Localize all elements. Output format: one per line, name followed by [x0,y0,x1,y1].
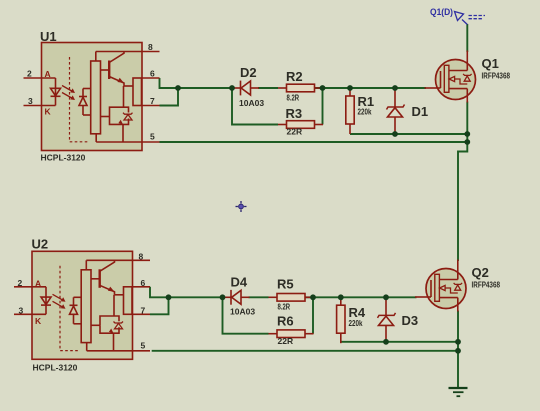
svg-text:IRFP4368: IRFP4368 [482,71,511,81]
opto U1 [24,43,160,151]
svg-text:3: 3 [28,96,33,106]
ground symbol [449,388,468,396]
mosfet Q1 [425,51,476,103]
svg-text:5: 5 [141,341,146,351]
node Y2 junction [310,294,316,300]
resistor R1 [346,88,354,134]
svg-text:A: A [45,69,51,79]
node Q2 source rail2 junction [455,348,461,354]
resistor R2 [278,84,323,92]
node Q1 source rail1 junction [464,131,470,137]
svg-text:5: 5 [150,132,155,142]
svg-text:7: 7 [150,96,155,106]
svg-text:6: 6 [141,278,146,288]
voltage probe Q1(D) [455,12,486,25]
svg-text:R3: R3 [286,106,303,121]
svg-text:2: 2 [27,69,32,79]
svg-text:22R: 22R [287,127,303,137]
resistor R6 [269,330,314,338]
wire node Y to Q1 gate [314,87,426,89]
svg-text:HCPL-3120: HCPL-3120 [33,363,78,373]
wire Q1 source to Q2 drain [458,102,467,262]
svg-text:Q1: Q1 [482,56,499,71]
node U1 out junction [175,85,181,91]
node R4 top junction [338,294,344,300]
zener D1 [387,89,405,134]
svg-text:Q1(D): Q1(D) [430,7,453,17]
wire U1 pin5 rail y142 [160,141,468,143]
resistor R3 [278,121,323,129]
node X junction [229,85,235,91]
svg-text:3: 3 [19,306,24,316]
svg-text:8: 8 [148,42,153,52]
diode D4 [223,290,250,305]
svg-text:7: 7 [141,306,146,316]
node D3 top junction [383,294,389,300]
node U2 out junction [166,294,172,300]
diode D2 [232,81,259,96]
svg-text:R2: R2 [286,69,303,84]
svg-text:HCPL-3120: HCPL-3120 [41,153,86,163]
node R1 top junction [347,85,353,91]
wire U1 pin7 up to gate node [160,89,179,106]
svg-text:D4: D4 [231,275,248,290]
origin marker [236,201,247,212]
wire rail R1/D1 bottom y134 [350,133,467,135]
zener D3 [378,297,396,342]
svg-text:U2: U2 [32,237,49,252]
svg-text:R5: R5 [277,277,294,292]
node Y junction [320,85,326,91]
svg-text:8.2R: 8.2R [278,302,291,312]
svg-text:D1: D1 [412,104,429,119]
wire U2 pin6 to gate node 2 [150,287,223,298]
svg-text:10A03: 10A03 [230,307,255,317]
wire U2 pin7 up to gate node 2 [150,298,169,314]
wire Q2 source to ground [457,311,459,389]
svg-text:K: K [45,107,52,117]
node X2 junction [220,294,226,300]
svg-text:K: K [35,316,42,326]
svg-text:R6: R6 [277,314,294,329]
svg-text:6: 6 [150,69,155,79]
svg-text:8: 8 [139,252,144,262]
node Q2 source rail1 junction [455,339,461,345]
svg-text:220k: 220k [358,107,372,117]
svg-text:U1: U1 [40,29,57,44]
svg-text:220k: 220k [349,318,363,328]
resistor R5 [269,294,314,302]
opto U2 [14,251,150,359]
node D3 bottom junction [383,339,389,345]
wire rail R4/D3 bottom y340.7 [341,341,458,343]
svg-text:D2: D2 [240,65,257,80]
wire U2 pin5 rail y350.7 [152,350,458,352]
svg-text:10A03: 10A03 [239,98,264,108]
svg-text:IRFP4368: IRFP4368 [472,280,501,290]
wire R6 right up to node Y2 [312,297,314,333]
wire D4 anode to R5 [249,296,269,298]
mosfet Q2 [415,260,466,312]
svg-text:2: 2 [18,278,23,288]
wire node X down to R3 [232,88,278,125]
svg-text:D3: D3 [402,313,419,328]
wire U1 pin6 to gate node [160,78,233,88]
node D1 bottom junction [392,131,398,137]
wire probe to Q1 drain [466,24,468,52]
wire node Y2 to Q2 gate [305,296,417,298]
node D1 top junction [392,85,398,91]
resistor R4 [337,297,345,343]
wire R3 right up to node Y [322,88,324,125]
svg-text:22R: 22R [278,336,294,346]
svg-text:Q2: Q2 [472,265,489,280]
wire D2 anode to R2 [258,87,278,89]
node Q1 source rail2 junction [464,139,470,145]
wire node X2 down to R6 [223,297,269,333]
svg-text:A: A [35,279,41,289]
svg-text:8.2R: 8.2R [287,93,300,103]
